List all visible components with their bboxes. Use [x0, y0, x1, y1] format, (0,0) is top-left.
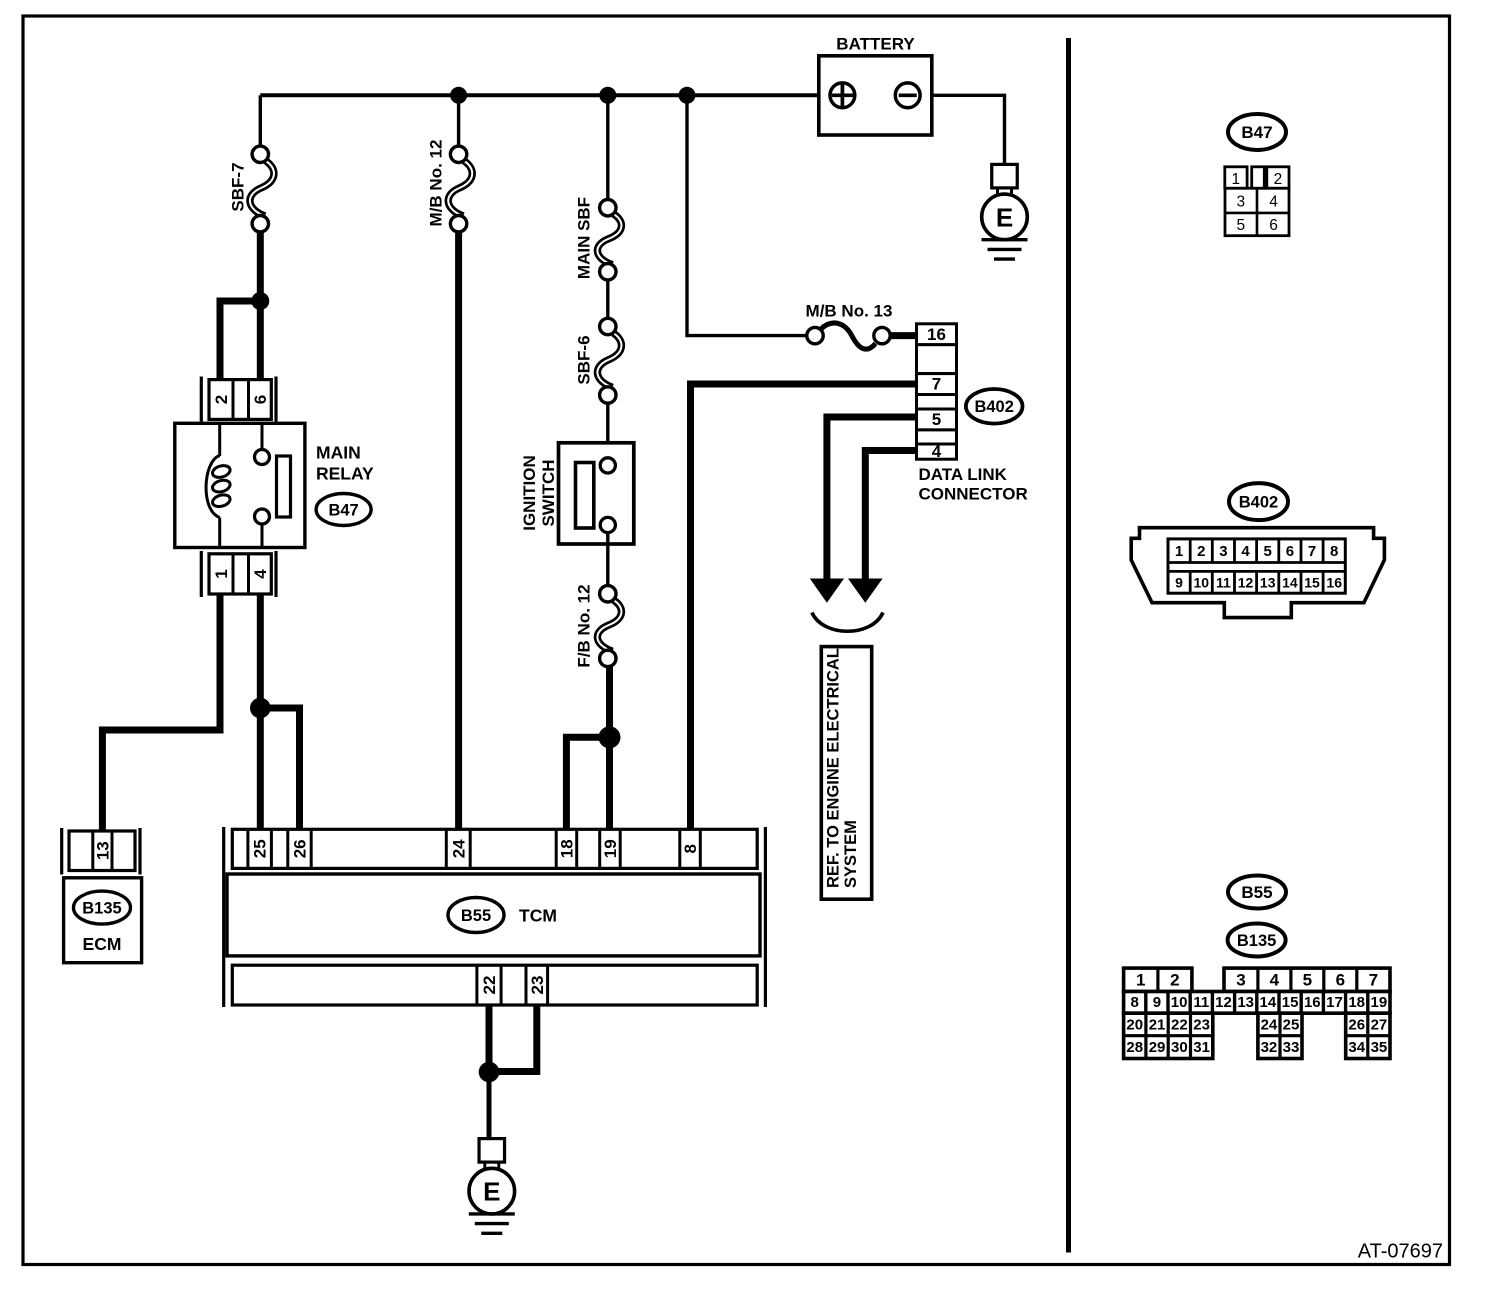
svg-text:MAIN SBF: MAIN SBF [575, 197, 594, 279]
wire bus to fuse SBF-7 [259, 95, 262, 146]
svg-text:IGNITION: IGNITION [520, 455, 539, 531]
svg-text:SYSTEM: SYSTEM [842, 820, 860, 888]
svg-text:6: 6 [1286, 543, 1294, 560]
svg-text:B55: B55 [1241, 883, 1272, 902]
svg-text:2: 2 [212, 395, 231, 404]
wire TCM pin 22 to ground junction [486, 1005, 493, 1072]
svg-text:1: 1 [1175, 543, 1183, 560]
svg-text:26: 26 [291, 839, 310, 858]
wire fuse F/B No.12 to TCM pin 19 [606, 667, 613, 831]
svg-text:17: 17 [1326, 994, 1343, 1011]
svg-text:8: 8 [1131, 994, 1139, 1011]
svg-text:33: 33 [1283, 1039, 1300, 1056]
svg-text:B402: B402 [974, 398, 1013, 416]
ground E (battery) [982, 164, 1028, 259]
TCM main box B55 [227, 874, 760, 956]
svg-text:M/B No. 13: M/B No. 13 [806, 302, 893, 321]
svg-text:12: 12 [1238, 574, 1254, 590]
wire junction to TCM pin 26 [260, 708, 299, 830]
svg-text:ECM: ECM [83, 934, 122, 954]
svg-text:1: 1 [1136, 970, 1145, 989]
wire junction to relay pin 2 [220, 301, 264, 379]
svg-text:TCM: TCM [519, 905, 557, 925]
wire bus to fuse MAIN SBF [606, 95, 609, 199]
svg-text:REF. TO ENGINE ELECTRICAL: REF. TO ENGINE ELECTRICAL [825, 648, 843, 888]
connector label connector view label B47 [1228, 114, 1286, 150]
svg-text:4: 4 [932, 442, 942, 461]
svg-text:10: 10 [1171, 994, 1188, 1011]
TCM top pin row [232, 829, 757, 868]
svg-text:26: 26 [1348, 1016, 1365, 1033]
svg-text:22: 22 [480, 976, 499, 995]
fuse F/B No. 12 [597, 586, 621, 667]
svg-text:2: 2 [1197, 543, 1205, 560]
connector label label B47 (schematic) [316, 494, 371, 526]
wire relay pin 4 to TCM pin 25 [257, 594, 264, 830]
svg-text:13: 13 [1237, 994, 1254, 1011]
svg-text:21: 21 [1149, 1016, 1166, 1033]
svg-text:CONNECTOR: CONNECTOR [919, 485, 1028, 504]
svg-text:11: 11 [1216, 574, 1231, 590]
svg-text:6: 6 [1269, 217, 1278, 234]
fuse SBF-6 [597, 318, 621, 403]
svg-text:MAIN: MAIN [316, 442, 361, 462]
svg-text:13: 13 [1260, 574, 1276, 590]
ignition switch [559, 443, 634, 544]
connector label label B135 (schematic) [74, 891, 131, 924]
svg-text:SBF-7: SBF-7 [229, 162, 248, 211]
svg-text:19: 19 [1371, 994, 1388, 1011]
svg-text:10: 10 [1193, 574, 1209, 590]
svg-text:31: 31 [1193, 1039, 1210, 1056]
fuse M/B No. 12 [448, 146, 472, 232]
svg-text:5: 5 [1303, 970, 1312, 989]
svg-text:25: 25 [1283, 1016, 1300, 1033]
svg-text:RELAY: RELAY [316, 463, 374, 483]
connector view B55/B135 pin grid [1124, 968, 1390, 1058]
svg-text:3: 3 [1236, 193, 1245, 210]
svg-text:15: 15 [1304, 574, 1320, 590]
svg-text:B55: B55 [461, 907, 491, 925]
svg-text:7: 7 [932, 375, 941, 394]
svg-text:SBF-6: SBF-6 [575, 335, 594, 384]
svg-text:32: 32 [1261, 1039, 1278, 1056]
wire MAIN SBF to SBF-6 [606, 280, 609, 318]
svg-text:25: 25 [251, 839, 270, 858]
main relay B47 [175, 423, 305, 547]
main relay connector top (pins 2,6) [201, 377, 276, 422]
ECM box B135 [64, 878, 142, 963]
svg-text:29: 29 [1149, 1039, 1166, 1056]
svg-text:4: 4 [251, 569, 270, 579]
svg-text:2: 2 [1170, 970, 1179, 989]
svg-text:28: 28 [1126, 1039, 1143, 1056]
svg-text:E: E [483, 1177, 500, 1207]
TCM connector brackets [224, 827, 766, 1007]
svg-text:7: 7 [1308, 543, 1316, 560]
svg-text:18: 18 [1348, 994, 1365, 1011]
svg-text:5: 5 [1264, 543, 1272, 560]
label IGNITION SWITCH [520, 455, 558, 531]
svg-text:8: 8 [1330, 543, 1338, 560]
svg-text:B47: B47 [1241, 123, 1272, 142]
wire battery positive bus [260, 93, 830, 97]
svg-text:3: 3 [1236, 970, 1245, 989]
wire fuse M/B No.12 to TCM pin 24 [455, 232, 462, 830]
fuse M/B No. 13 [807, 323, 890, 349]
svg-text:34: 34 [1348, 1039, 1365, 1056]
svg-text:19: 19 [601, 839, 620, 858]
svg-text:11: 11 [1193, 994, 1209, 1011]
connector label connector view label B135 [1228, 924, 1286, 957]
fuse SBF-7 [250, 146, 274, 232]
wire DLC pin 4 arrow [865, 451, 916, 581]
svg-text:8: 8 [681, 844, 700, 853]
svg-text:15: 15 [1282, 994, 1299, 1011]
ground E (TCM) [469, 1139, 515, 1234]
junction pins 18/19 [599, 726, 621, 748]
fuse MAIN SBF [597, 200, 621, 280]
wire battery negative to ground [921, 95, 1005, 164]
svg-text:35: 35 [1371, 1039, 1388, 1056]
main relay connector bottom (pins 1,4) [201, 551, 276, 597]
wire junction to relay pin 6 [257, 301, 264, 379]
arrowhead pin 5 [810, 579, 844, 603]
wire junction to ground E [487, 1072, 492, 1139]
svg-text:1: 1 [212, 569, 231, 578]
svg-text:DATA LINK: DATA LINK [919, 465, 1008, 484]
wire DLC pin 5 arrow [827, 417, 917, 580]
svg-text:16: 16 [1326, 574, 1342, 590]
svg-text:12: 12 [1215, 994, 1232, 1011]
label DATA LINK CONNECTOR [919, 465, 1028, 504]
data link connector B402 [917, 324, 957, 461]
svg-text:14: 14 [1260, 994, 1277, 1011]
svg-text:AT-07697: AT-07697 [1358, 1240, 1443, 1262]
column divider line [1066, 38, 1071, 1253]
svg-text:23: 23 [528, 976, 547, 995]
svg-text:B135: B135 [82, 900, 121, 918]
label MAIN RELAY [316, 442, 374, 483]
svg-text:13: 13 [93, 841, 112, 860]
svg-text:3: 3 [1219, 543, 1227, 560]
wire junction to TCM pin 18 [566, 737, 609, 830]
connector label connector view label B55 [1228, 876, 1286, 909]
svg-text:5: 5 [1236, 217, 1245, 234]
svg-text:2: 2 [1274, 171, 1283, 188]
svg-text:1: 1 [1231, 171, 1240, 188]
junction pins 25/26 [250, 698, 271, 719]
svg-text:5: 5 [932, 410, 941, 429]
junction ground [479, 1062, 500, 1083]
continuation arc [812, 613, 883, 632]
wire fuse SBF-7 to junction [257, 232, 264, 301]
svg-text:9: 9 [1153, 994, 1161, 1011]
wire TCM pin 23 to ground junction [489, 1005, 537, 1072]
svg-text:24: 24 [1261, 1016, 1278, 1033]
svg-text:M/B No. 12: M/B No. 12 [427, 140, 446, 227]
wire ignition switch to fuse F/B No.12 [606, 533, 609, 585]
arrowhead pin 4 [848, 579, 883, 603]
svg-text:B402: B402 [1239, 494, 1278, 512]
wire SBF-6 to ignition switch [606, 403, 609, 457]
svg-text:16: 16 [1304, 994, 1321, 1011]
junction main relay feed [251, 292, 269, 310]
connector label label B55 (schematic) [448, 898, 504, 933]
connector view B47 pin grid [1225, 167, 1289, 236]
TCM bottom pin row [232, 965, 757, 1005]
svg-text:20: 20 [1126, 1016, 1143, 1033]
svg-text:B47: B47 [328, 501, 358, 519]
connector view B402 pin grid [1168, 539, 1345, 593]
svg-text:4: 4 [1270, 970, 1280, 989]
junction bus / MAIN SBF [599, 87, 616, 104]
svg-text:4: 4 [1269, 193, 1278, 210]
svg-text:6: 6 [1336, 970, 1345, 989]
wire fuse M/B No.13 to DLC pin 16 [890, 332, 916, 339]
junction bus / M|B No.12 [450, 87, 467, 104]
wire bus to fuse M/B No.13 [687, 95, 807, 335]
connector label label B402 (schematic) [966, 389, 1023, 424]
svg-text:6: 6 [251, 395, 270, 404]
wire relay pin 1 to ECM pin 13 [102, 594, 220, 832]
ECM connector row (pin 13) [62, 828, 140, 875]
svg-text:23: 23 [1193, 1016, 1210, 1033]
svg-text:22: 22 [1171, 1016, 1188, 1033]
wire bus to fuse M/B No.12 [457, 95, 460, 146]
connector label connector view label B402 [1229, 483, 1288, 520]
svg-text:7: 7 [1369, 970, 1378, 989]
svg-text:4: 4 [1241, 543, 1250, 560]
svg-text:BATTERY: BATTERY [836, 35, 915, 54]
svg-text:30: 30 [1171, 1039, 1188, 1056]
svg-text:SWITCH: SWITCH [539, 459, 558, 526]
svg-text:B135: B135 [1237, 932, 1276, 950]
svg-text:14: 14 [1282, 574, 1298, 590]
battery [819, 35, 932, 135]
svg-text:27: 27 [1371, 1016, 1388, 1033]
connector view B402 outline [1131, 528, 1384, 618]
svg-text:18: 18 [558, 839, 577, 858]
ref to engine electrical system box [821, 647, 871, 900]
svg-text:24: 24 [449, 839, 468, 858]
svg-text:16: 16 [927, 325, 946, 344]
svg-text:9: 9 [1175, 574, 1183, 590]
junction bus / M|B No.13 [679, 87, 696, 104]
svg-text:F/B No. 12: F/B No. 12 [575, 584, 594, 667]
svg-text:E: E [996, 202, 1013, 232]
wire DLC pin 7 to TCM pin 8 [691, 384, 917, 830]
